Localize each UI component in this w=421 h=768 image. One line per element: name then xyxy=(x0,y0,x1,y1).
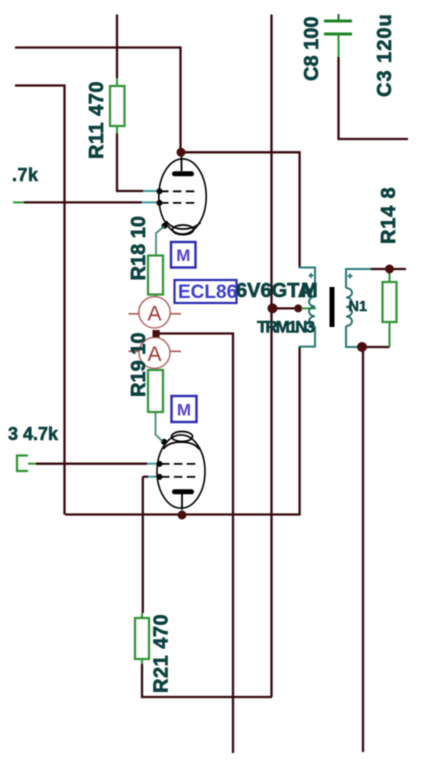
svg-text:R19 10: R19 10 xyxy=(128,333,150,398)
svg-text:N1: N1 xyxy=(349,299,368,315)
svg-text:R21 470: R21 470 xyxy=(151,614,173,693)
svg-text:A: A xyxy=(147,303,161,326)
svg-text:3 4.7k: 3 4.7k xyxy=(8,424,59,444)
svg-text:ECL86: ECL86 xyxy=(178,282,237,303)
svg-text:R18 10: R18 10 xyxy=(128,216,150,281)
svg-text:C3 120u: C3 120u xyxy=(374,13,396,97)
svg-text:R14 8: R14 8 xyxy=(378,187,400,244)
svg-text:R11 470: R11 470 xyxy=(86,81,108,159)
svg-text:C8 100: C8 100 xyxy=(301,17,323,82)
svg-text:TRM1N3: TRM1N3 xyxy=(257,318,315,337)
svg-text:.7k: .7k xyxy=(12,165,39,185)
svg-text:M: M xyxy=(301,280,318,302)
svg-text:M: M xyxy=(176,246,190,265)
svg-text:M: M xyxy=(177,401,191,420)
